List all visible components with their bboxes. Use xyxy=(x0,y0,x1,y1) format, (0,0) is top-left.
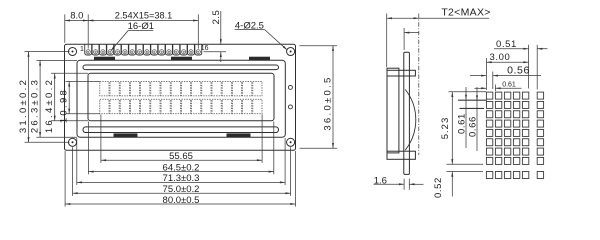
dim 80.0+-0.5 xyxy=(65,151,295,207)
backlight hole lower xyxy=(288,105,292,109)
side view top tab xyxy=(387,70,415,76)
dim 16.4+-0.2 xyxy=(44,73,88,133)
pin 1 label xyxy=(80,46,84,53)
dim 2.5 xyxy=(204,10,227,62)
mounting hole bottom-left xyxy=(68,138,76,146)
dim 5.23 xyxy=(440,92,486,165)
dim 0.61 vertical xyxy=(457,87,488,148)
svg-text:4-Ø2.5: 4-Ø2.5 xyxy=(235,21,264,32)
bezel top slot xyxy=(83,65,279,70)
dim 2.54X15=38.1 xyxy=(88,11,198,49)
svg-text:16.4±0.2: 16.4±0.2 xyxy=(44,78,55,133)
dim 75.0+-0.2 xyxy=(73,147,291,196)
svg-text:16: 16 xyxy=(201,45,209,52)
svg-text:0.51: 0.51 xyxy=(496,39,517,50)
bezel top tab middle xyxy=(172,57,192,60)
pin 16 label xyxy=(201,45,209,52)
bezel top tab left xyxy=(95,57,115,60)
dim 0.61 horizontal xyxy=(475,82,522,91)
dim 36.0+-0.5 xyxy=(300,46,338,149)
dim 0.56 xyxy=(470,65,541,89)
dim 0.66 vertical xyxy=(460,87,485,151)
backlight hole upper xyxy=(288,85,292,89)
dim 31.0+-0.2 xyxy=(18,52,70,143)
svg-text:31.0±0.2: 31.0±0.2 xyxy=(18,78,29,133)
pcb outline front view xyxy=(65,44,296,150)
dim T2 MAX xyxy=(387,7,491,67)
dim pin offset xyxy=(404,28,419,50)
dim 0.52 xyxy=(433,172,483,198)
svg-text:1.6: 1.6 xyxy=(374,175,387,186)
dim 1.6 xyxy=(374,175,424,189)
side view bezel-glass body xyxy=(387,68,399,153)
bezel bottom tab right xyxy=(227,134,250,137)
dim 4-&#216;2.5 leader xyxy=(235,21,288,50)
mounting hole top-left xyxy=(68,47,76,55)
svg-text:0.52: 0.52 xyxy=(433,177,444,198)
dim 0.51 xyxy=(494,39,548,90)
bezel frame xyxy=(77,60,285,137)
dot matrix 6x9 squares xyxy=(486,92,543,178)
display window xyxy=(88,73,274,121)
pin header 16 pins xyxy=(85,44,202,55)
bezel bottom slot xyxy=(83,127,279,133)
bezel bottom tab left xyxy=(114,134,137,137)
mounting hole top-right xyxy=(287,47,295,55)
svg-text:36.0±0.5: 36.0±0.5 xyxy=(322,75,333,130)
side view max extent centerline xyxy=(418,14,420,156)
dim 71.3+-0.3 xyxy=(77,138,285,185)
side view bottom tab xyxy=(387,151,415,159)
bezel top tab right xyxy=(250,57,270,60)
svg-text:0.56: 0.56 xyxy=(507,65,530,77)
svg-text:0.61: 0.61 xyxy=(502,82,516,89)
dim 10.98 xyxy=(59,81,100,123)
svg-text:8.0: 8.0 xyxy=(70,11,83,22)
character grid 16x2 xyxy=(100,81,262,113)
dim 26.3+-0.3 xyxy=(30,60,78,137)
svg-text:2.54X15=38.1: 2.54X15=38.1 xyxy=(115,11,172,21)
svg-text:10.98: 10.98 xyxy=(59,88,70,123)
dim 8.0 xyxy=(65,11,88,49)
svg-text:26.3±0.3: 26.3±0.3 xyxy=(30,78,41,133)
mounting hole bottom-right xyxy=(287,138,295,146)
dim 55.65 xyxy=(101,115,262,163)
label 16-&#216;1 leader xyxy=(111,21,154,51)
dim 64.5+-0.2 xyxy=(88,122,273,175)
side view backlight arc xyxy=(405,90,415,151)
svg-text:T2<MAX>: T2<MAX> xyxy=(441,7,490,19)
dim 3.00 xyxy=(486,52,528,90)
svg-text:3.00: 3.00 xyxy=(490,52,511,63)
svg-text:5.23: 5.23 xyxy=(440,117,451,140)
side view pin header bar xyxy=(404,52,410,174)
svg-text:1: 1 xyxy=(80,46,84,53)
